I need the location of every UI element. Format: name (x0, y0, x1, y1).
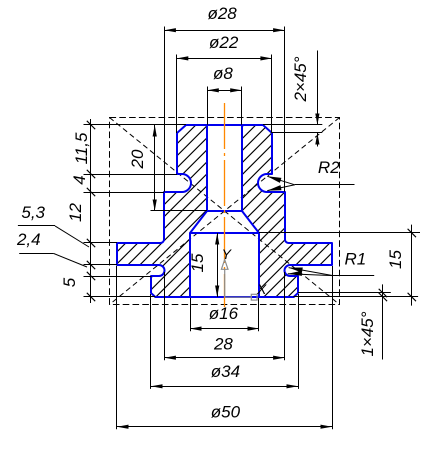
svg-text:R2: R2 (318, 158, 340, 177)
extension line (84, 124, 187, 126)
left stack dimension line (90, 119, 92, 303)
dimension 20 (154, 125, 156, 211)
svg-text:ø50: ø50 (211, 403, 241, 422)
dimension d16 bottom (190, 328, 259, 330)
tick (87, 239, 95, 247)
svg-text:ø16: ø16 (209, 304, 239, 323)
part section outline right (242, 125, 332, 297)
svg-text:12: 12 (66, 203, 85, 222)
svg-text:11,5: 11,5 (72, 132, 91, 164)
dimension 15 hole depth (217, 233, 219, 297)
extension line (84, 192, 165, 194)
svg-text:2×45°: 2×45° (291, 56, 310, 102)
dashed stock outline box (110, 118, 340, 305)
tick (87, 261, 95, 269)
cone top edge (207, 210, 242, 212)
dimension 28 bottom (164, 357, 284, 359)
svg-text:15: 15 (188, 253, 207, 272)
svg-text:4: 4 (70, 175, 89, 184)
chamfer dimension 1x45 (298, 292, 391, 294)
svg-text:15: 15 (386, 250, 405, 269)
dimension d50 (117, 426, 332, 428)
tick (87, 188, 95, 196)
dashed diagonal (110, 118, 340, 305)
extension line (84, 264, 118, 266)
extension line (84, 296, 156, 298)
bottom face edge across hole (190, 296, 259, 298)
svg-text:5,3: 5,3 (21, 203, 45, 222)
svg-text:X: X (256, 281, 267, 297)
svg-text:5: 5 (60, 277, 79, 287)
svg-text:ø34: ø34 (211, 362, 240, 381)
dimension d8 (207, 90, 241, 92)
extension line (84, 174, 178, 176)
top face edge across hole (207, 124, 242, 126)
svg-text:20: 20 (128, 149, 147, 169)
part section outline left (117, 125, 207, 297)
svg-text:28: 28 (213, 334, 233, 353)
svg-text:2,4: 2,4 (16, 230, 41, 249)
section hatching (0, 110, 437, 310)
extension line (84, 276, 152, 278)
local coordinate system Y axis (221, 260, 257, 300)
dimension d34 (151, 386, 298, 388)
svg-text:ø8: ø8 (213, 64, 233, 83)
svg-text:ø28: ø28 (207, 4, 237, 23)
tick (87, 170, 95, 178)
dashed diagonal (110, 118, 340, 305)
svg-text:R1: R1 (345, 250, 367, 269)
extension line (84, 242, 118, 244)
dimension d22 (177, 58, 272, 60)
tick (87, 121, 95, 129)
dimension 15 right (259, 232, 420, 234)
chamfer dimension 2x45 (263, 124, 322, 126)
svg-text:1×45°: 1×45° (358, 311, 377, 356)
cone bottom edge (d16 top) (190, 232, 259, 234)
svg-text:ø22: ø22 (209, 33, 239, 52)
svg-text:Y: Y (222, 246, 233, 262)
tick (87, 293, 95, 301)
vertical centerline (224, 103, 226, 307)
tick (87, 272, 95, 280)
dimension d28 top (164, 30, 284, 32)
